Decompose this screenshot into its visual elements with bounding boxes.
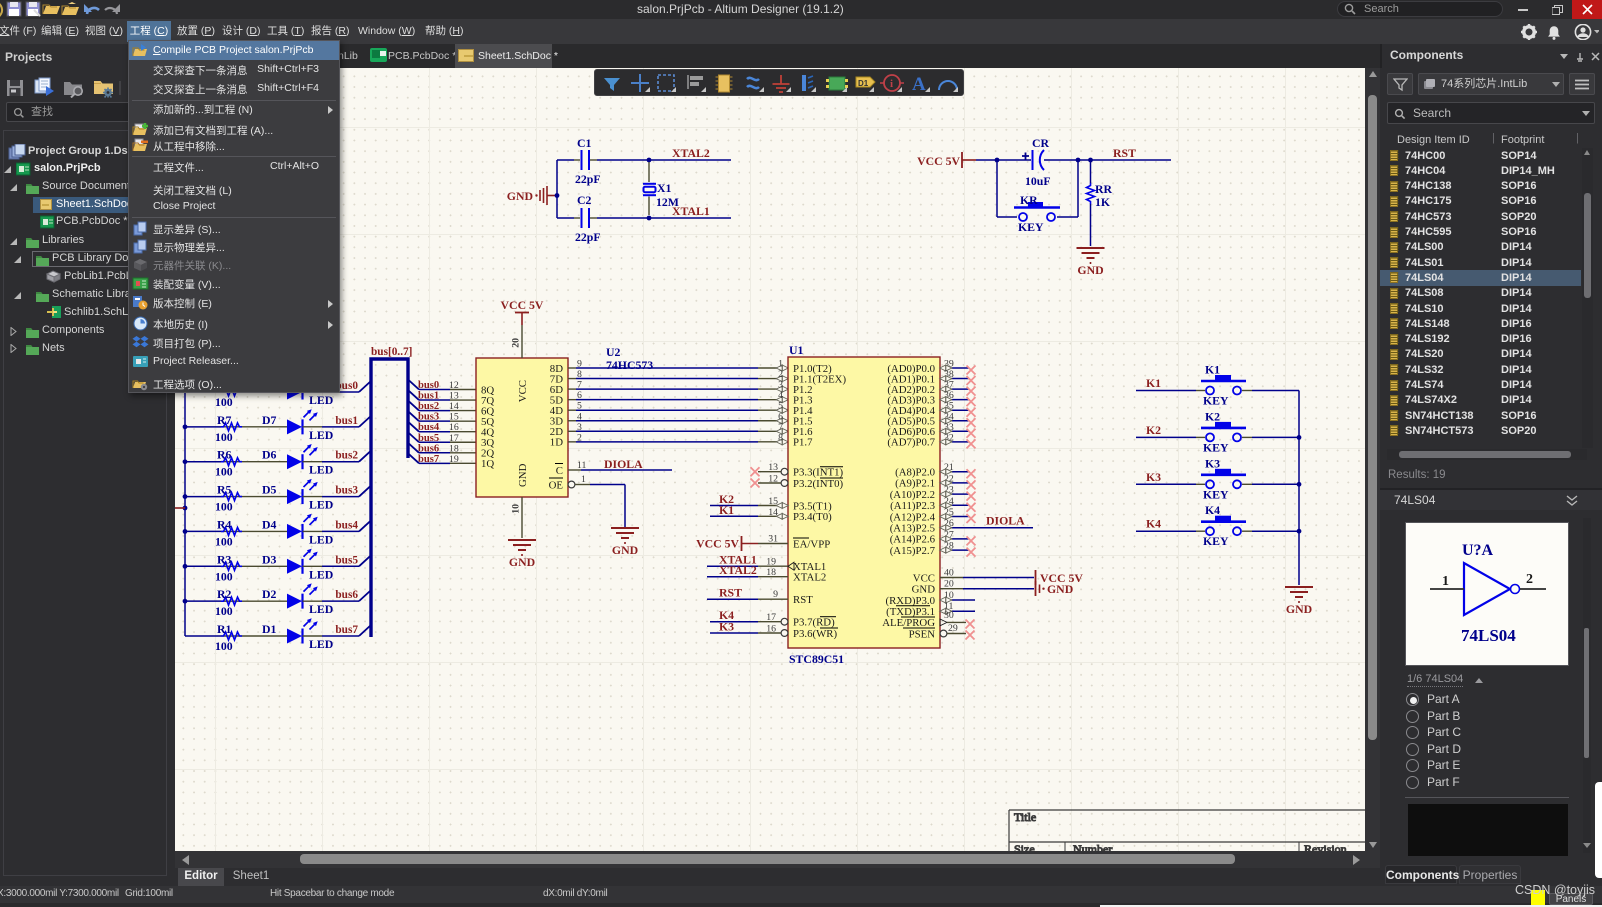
no-ERC cross P0.4 [967,408,976,417]
svg-text:VCC: VCC [913,572,935,584]
svg-text:VCC 5V: VCC 5V [917,154,960,168]
svg-text:LED: LED [309,393,333,407]
svg-text:bus[0..7]: bus[0..7] [371,346,412,358]
svg-text:20: 20 [511,338,522,348]
capacitor C2 22pF [575,193,601,244]
svg-text:20: 20 [944,579,954,590]
svg-text:100: 100 [215,569,233,583]
wire U2 6D to U1 P1.2 [568,386,788,392]
wire U1 P3.1 pin 11 stub [940,601,975,614]
push button K2 KEY [1201,409,1246,454]
wire LED left rail [183,392,188,636]
svg-text:R2: R2 [217,587,232,601]
U1 pin name XTAL1 [788,561,826,573]
svg-text:16: 16 [766,624,776,635]
no-ERC cross P2.6 [967,536,976,545]
svg-text:100: 100 [215,500,233,514]
svg-text:10: 10 [511,504,522,514]
push button K3 KEY [1201,456,1246,501]
svg-text:K3: K3 [1205,456,1220,470]
svg-text:KEY: KEY [1018,220,1044,234]
svg-text:X1: X1 [657,181,672,195]
svg-text:bus1: bus1 [335,415,358,427]
wire C1 row [557,159,649,161]
svg-text:LED: LED [309,428,333,442]
svg-text:R1: R1 [217,622,232,636]
wire U2 OE pin 1 to ground [568,474,625,527]
svg-text:Revision: Revision [1304,842,1347,851]
svg-text:DIOLA: DIOLA [986,514,1025,528]
wire U2 2D to U1 P1.6 [568,428,788,434]
svg-text:R5: R5 [217,483,232,497]
svg-text:D2: D2 [262,587,277,601]
no-ERC cross P0.3 [967,397,976,406]
wire bus entry bus1 to U2 pin 13 [408,390,476,400]
svg-text:(TXD)P3.1: (TXD)P3.1 [886,606,935,618]
LED D5 [262,479,333,512]
wire U1 P0.6 no-connect [940,422,969,435]
svg-text:R6: R6 [217,448,232,462]
svg-text:14: 14 [449,401,459,412]
node XTAL2 junction [647,158,652,163]
svg-text:bus6: bus6 [418,443,439,454]
svg-text:100: 100 [215,465,233,479]
wire EA/VPP pin 31 [758,534,788,545]
U1 pin name PSEN [903,628,935,640]
schematic horizontal scrollbar [175,851,1380,868]
svg-text:K2: K2 [1146,423,1161,437]
wire VCC stub (left rail) [175,507,185,509]
power port VCC 5V (U2 pin 20) [501,298,544,325]
svg-text:7: 7 [577,380,582,391]
power port VCC 5V (EA/VPP) [696,536,758,551]
wire U1 P2.4 no-connect [940,507,969,520]
editor tabs row [170,868,1380,886]
svg-text:5: 5 [577,401,582,412]
svg-text:D5: D5 [262,483,277,497]
wire K3 to U1 pin 16 [710,624,788,637]
wire U1 P0.7 no-connect [940,432,969,445]
resistor R2 100 [185,587,287,618]
U1 pin name P3.3(INT1) [793,467,843,479]
wire U2 5D to U1 P1.3 [568,397,788,403]
svg-text:bus4: bus4 [335,519,358,531]
wire K4 row left [1136,530,1205,532]
push button K4 KEY [1201,503,1246,548]
wire U1 GND pin 20 [940,579,1034,590]
svg-text:P1.7: P1.7 [793,437,813,449]
svg-text:bus2: bus2 [418,401,439,412]
svg-text:D7: D7 [262,413,277,427]
wire U2 4D to U1 P1.4 [568,407,788,413]
wire U1 PSEN pin 29 [940,623,966,637]
wire GND node vertical [555,160,560,218]
svg-text:C1: C1 [577,136,592,150]
svg-text:100: 100 [215,604,233,618]
svg-text:GND: GND [612,543,638,557]
no-ERC cross P2.3 [967,503,976,512]
svg-text:22pF: 22pF [575,172,601,186]
svg-text:C: C [556,465,563,477]
wire U1 P2.3 no-connect [940,496,969,509]
wire U1 VCC pin 40 [940,568,1034,579]
LED D8 [262,374,333,407]
svg-text:bus7: bus7 [335,624,358,636]
svg-text:1K: 1K [1095,195,1111,209]
svg-text:LED: LED [309,463,333,477]
svg-text:12: 12 [768,474,778,485]
wire U2 7D to U1 P1.1 [568,376,788,382]
svg-text:C2: C2 [577,193,592,207]
svg-text:KR: KR [1020,193,1038,207]
wire bus2 to bus [303,451,372,462]
svg-text:16: 16 [449,422,459,433]
svg-text:(A15)P2.7: (A15)P2.7 [890,545,936,557]
title bar [0,0,1602,19]
node XTAL1 junction [647,216,652,221]
svg-text:GND: GND [509,555,535,569]
svg-text:100: 100 [215,534,233,548]
U1 pin names P1.x [793,363,846,449]
wire U1 P0.5 no-connect [940,411,969,424]
svg-text:17: 17 [766,612,776,623]
wire XTAL1 to U1 pin 19 [707,557,788,568]
svg-text:(A11)P2.3: (A11)P2.3 [890,500,935,512]
LED D2 [262,583,333,616]
no-ERC cross P2.7 [967,548,976,557]
svg-text:LED: LED [309,498,333,512]
svg-text:bus5: bus5 [418,433,439,444]
no-ERC cross P0.7 [967,439,976,448]
resistor R8 100 [185,378,287,409]
wire RST to U1 pin 9 [707,589,788,600]
ground GND (U2 pin 10) [508,540,536,569]
power port GND (U1 pin 20) [1036,581,1074,596]
wire XTAL2 [649,159,731,161]
wire CR to RST [1044,158,1171,163]
svg-text:CR: CR [1032,136,1050,150]
svg-text:13: 13 [768,462,778,473]
wire bus entry bus7 to U2 pin 19 [408,453,476,463]
wire U1 P0.3 no-connect [940,390,969,402]
svg-text:U1: U1 [789,343,804,357]
title block [1009,810,1365,856]
wire U1 P0.1 no-connect [940,369,969,382]
wire bus entry bus0 to U2 pin 12 [408,380,476,390]
U1 pin name P3.6(WR) [793,628,838,640]
svg-text:100: 100 [215,430,233,444]
wire U1 P2.0 no-connect [940,462,969,475]
wire VCC to CR [976,158,1031,163]
svg-text:STC89C51: STC89C51 [789,652,844,666]
svg-text:LED: LED [309,567,333,581]
resistor R3 100 [185,552,287,583]
U1 pin name ALE/PROG [882,617,935,629]
no-ERC cross P2.2 [967,492,976,501]
wire U1 pin 13 no-connect [758,462,788,475]
wire K3 row left [1136,483,1205,485]
capacitor C1 22pF [575,136,601,186]
svg-text:(A8)P2.0: (A8)P2.0 [895,467,935,479]
svg-text:K4: K4 [1146,517,1161,531]
wire K2 row left [1136,436,1205,438]
svg-text:3: 3 [778,380,783,391]
no-ERC cross P0.0 [967,366,976,375]
svg-text:D1: D1 [262,622,277,636]
svg-text:19: 19 [766,557,776,568]
push button KR KEY [1014,193,1060,234]
wire bus entry bus4 to U2 pin 16 [408,422,476,432]
U1 pin name EA/VPP [793,538,830,550]
svg-text:100: 100 [215,639,233,653]
wire U2 1D to U1 P1.7 [568,439,788,445]
svg-text:(A14)P2.6: (A14)P2.6 [890,534,936,546]
wire U1 pin 12 no-connect [758,474,788,487]
svg-text:RST: RST [1113,146,1136,160]
svg-text:1Q: 1Q [481,458,494,470]
LED D4 [262,514,333,547]
svg-text:KEY: KEY [1203,394,1229,408]
svg-text:Title: Title [1014,810,1036,824]
svg-text:100: 100 [215,395,233,409]
no-ERC cross P0.6 [967,429,976,438]
svg-text:P3.6(WR): P3.6(WR) [793,628,837,640]
wire bus3 to bus [303,486,372,497]
schematic vertical scrollbar [1365,68,1380,851]
svg-text:2: 2 [577,432,582,443]
svg-text:29: 29 [948,623,958,634]
svg-text:K1: K1 [1205,363,1220,377]
U1 pin name P3.7(RD) [793,617,836,629]
svg-text:GND: GND [507,189,533,203]
svg-text:bus4: bus4 [418,422,440,433]
status bar [0,886,1602,903]
svg-text:19: 19 [449,454,459,465]
svg-text:1D: 1D [550,437,563,449]
menu bar [0,19,1602,44]
svg-text:R4: R4 [217,517,232,531]
wire bus5 to bus [303,555,372,566]
svg-text:P3.3(INT1): P3.3(INT1) [793,467,843,479]
wire K4 row right [1242,530,1299,532]
svg-text:GND: GND [1077,263,1103,277]
wire key branch left [997,160,1017,217]
power port VCC 5V (U1 pin 40) [1036,570,1084,585]
svg-text:bus3: bus3 [335,485,358,497]
svg-text:KEY: KEY [1203,487,1229,501]
wire XTAL2 to U1 pin 18 [707,567,788,578]
transistor U1 STC89C51 MCU body [788,343,940,666]
wire bus1 to bus [303,416,372,427]
svg-text:P3.7(RD): P3.7(RD) [793,617,835,629]
svg-text:P3.2(INT0): P3.2(INT0) [793,478,843,490]
svg-text:1: 1 [581,474,586,485]
svg-text:17: 17 [449,433,459,444]
wire DIOLA (U1 pin 26) [940,518,1033,531]
push button K1 KEY [1201,363,1246,408]
svg-text:GND: GND [912,584,936,596]
svg-text:2: 2 [1526,572,1533,587]
svg-text:K2: K2 [1205,409,1220,423]
wire U2 pin 10 [511,497,523,538]
wire U1 P2.7 no-connect [940,541,969,554]
svg-text:40: 40 [944,568,954,579]
svg-text:A: A [912,74,926,95]
resistor R7 100 [185,413,287,444]
svg-text:11: 11 [577,460,587,471]
resistor R6 100 [185,448,287,479]
power port VCC 5V (reset) [917,152,976,168]
wire K3 row right [1242,483,1299,485]
power port GND (crystal) [507,186,557,205]
bus bus[0..7] [371,359,408,637]
svg-text:1: 1 [1442,574,1449,589]
svg-text:VCC: VCC [517,380,529,402]
svg-text:22pF: 22pF [575,230,601,244]
svg-text:12: 12 [449,380,459,391]
U1 pin names P0.x [887,363,935,449]
svg-text:XTAL2: XTAL2 [719,563,757,577]
svg-text:RST: RST [793,594,813,606]
LED D1 [262,618,333,651]
resistor R5 100 [185,483,287,514]
svg-text:K4: K4 [1205,503,1220,517]
resistor R4 100 [185,517,287,548]
schematic editor viewport [175,68,1365,851]
svg-text:GND: GND [1047,582,1073,596]
svg-text:(A13)P2.5: (A13)P2.5 [890,523,935,535]
wire K2 to U1 pin 15 [710,496,788,509]
svg-text:74LS04: 74LS04 [1461,626,1516,645]
no-ERC cross pin 29 [966,631,975,640]
svg-text:9: 9 [577,359,582,370]
svg-text:K3: K3 [1146,470,1161,484]
svg-text:U2: U2 [606,345,621,359]
svg-text:bus7: bus7 [418,454,440,465]
svg-text:RR: RR [1095,182,1113,196]
wire bus entry bus3 to U2 pin 15 [408,411,476,421]
svg-text:4: 4 [778,390,783,401]
svg-text:(AD7)P0.7: (AD7)P0.7 [887,437,935,449]
wire bus entry bus5 to U2 pin 17 [408,432,476,442]
wire C2 row [557,217,649,219]
wire bus entry bus2 to U2 pin 14 [408,401,476,411]
svg-text:(A10)P2.2: (A10)P2.2 [890,489,935,501]
svg-text:VCC 5V: VCC 5V [501,298,544,312]
no-ERC cross P0.2 [967,387,976,396]
svg-text:RST: RST [719,586,742,600]
svg-text:bus6: bus6 [335,589,358,601]
svg-text:12M: 12M [656,195,679,209]
svg-text:GND: GND [1286,602,1312,616]
no-ERC cross pin 30 [966,620,975,629]
wire keys right rail [1297,391,1302,586]
svg-text:6: 6 [577,390,582,401]
svg-text:bus0: bus0 [418,380,439,391]
svg-text:OE: OE [549,480,564,492]
wire bus0 to bus [303,381,372,392]
svg-text:K1: K1 [1146,376,1161,390]
wire K4 to U1 pin 17 [710,612,788,625]
svg-text:K1: K1 [719,503,734,517]
no-ERC cross P0.5 [967,418,976,427]
LED D6 [262,444,333,477]
svg-text:U?A: U?A [1462,542,1494,559]
wire U1 P2.6 no-connect [940,529,969,542]
svg-text:15: 15 [449,412,459,423]
wire bus7 to bus [303,625,372,636]
no-ERC cross P2.4 [967,514,976,523]
U1 pin name P3.2(INT0) [793,478,843,490]
op-amp U2 74HC573 latch body [476,345,653,497]
svg-text:8: 8 [577,369,582,380]
wire bus entry bus6 to U2 pin 18 [408,443,476,453]
svg-text:EA/VPP: EA/VPP [793,538,830,550]
wire K2 row right [1242,436,1299,438]
svg-text:bus2: bus2 [335,450,358,462]
no-ERC cross P0.1 [967,376,976,385]
wire U1 P3.0 pin 10 stub [940,590,975,603]
svg-text:DIOLA: DIOLA [604,457,643,471]
svg-text:i: i [890,78,893,90]
svg-text:Number: Number [1073,842,1112,851]
svg-text:2: 2 [778,369,783,380]
crystal X1 12M [643,162,679,215]
projects panel [0,44,170,886]
svg-text:D6: D6 [262,448,277,462]
svg-text:LED: LED [309,532,333,546]
ground GND (reset) [1077,248,1105,277]
svg-text:LED: LED [309,602,333,616]
wire K1 row right [1242,390,1299,392]
svg-text:VCC 5V: VCC 5V [696,537,739,551]
svg-text:1: 1 [778,359,783,370]
resistor RR 1K [1087,160,1113,246]
svg-text:D1: D1 [858,79,869,88]
svg-text:18: 18 [766,567,776,578]
svg-text:LED: LED [309,637,333,651]
ground GND (U2 OE) [611,528,639,557]
wire XTAL1 [649,217,731,219]
no-ERC cross P2.0 [967,469,976,478]
svg-text:PSEN: PSEN [909,628,936,640]
LED D3 [262,549,333,582]
svg-text:Size: Size [1014,842,1035,851]
LED D7 [262,409,333,442]
svg-text:K3: K3 [719,620,734,634]
svg-text:4: 4 [577,411,582,422]
wire U1 P2.1 no-connect [940,473,969,486]
svg-text:bus1: bus1 [418,391,439,402]
svg-text:bus5: bus5 [335,554,358,566]
svg-text:10uF: 10uF [1025,174,1051,188]
svg-text:(A9)P2.1: (A9)P2.1 [895,478,935,490]
svg-text:7: 7 [778,422,783,433]
svg-text:5: 5 [778,401,783,412]
U2 pin names right (1D-8D, C, OE) [481,363,563,492]
U1 pin name (TXD)P3.1 [886,606,935,618]
svg-text:74HC573: 74HC573 [606,358,653,372]
document tab row [170,44,1380,68]
wire bus4 to bus [303,520,372,531]
wire U1 P0.0 no-connect [940,359,969,372]
svg-text:18: 18 [449,443,459,454]
svg-text:P3.4(T0): P3.4(T0) [793,511,832,523]
wire U2 3D to U1 P1.5 [568,418,788,424]
svg-text:9: 9 [773,589,778,600]
svg-text:31: 31 [768,534,778,545]
wire U1 P2.2 no-connect [940,485,969,498]
